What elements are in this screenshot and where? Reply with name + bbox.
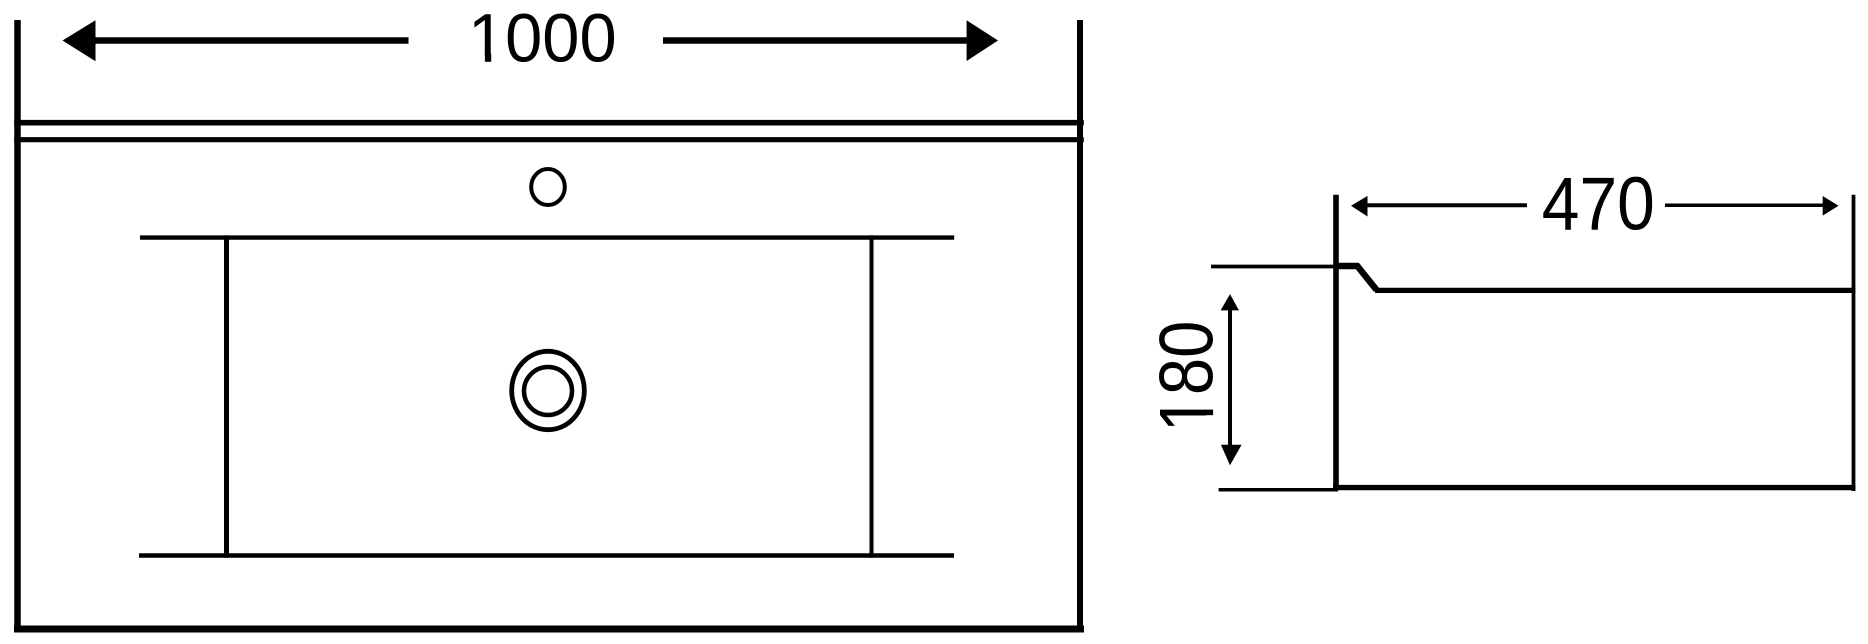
countertop bottom edge: [14, 626, 1084, 633]
faucet hole: [531, 169, 565, 205]
basin left edge: [224, 235, 229, 557]
svg-text:180: 180: [1145, 321, 1230, 433]
180 bottom extension line: [1219, 488, 1338, 492]
basin top edge: [140, 235, 954, 239]
dimension 1000 right arrow: [663, 20, 998, 61]
drain inner circle: [524, 367, 572, 415]
180 top extension line: [1211, 265, 1339, 269]
countertop back rim second line: [14, 137, 1084, 142]
basin profile top edge: [1375, 288, 1855, 293]
dimension 180 down arrow: [1221, 445, 1242, 466]
top view right extension line: [1077, 20, 1083, 632]
svg-text:1000: 1000: [468, 0, 617, 77]
basin profile ledge and slope: [1334, 266, 1377, 290]
basin right edge: [870, 235, 874, 557]
dimension label 1000: [468, 0, 617, 77]
dimension 470 right arrow: [1665, 196, 1839, 216]
dimension 470 left arrow: [1351, 196, 1527, 217]
svg-text:470: 470: [1542, 162, 1655, 246]
dimension 1000 left arrow: [63, 20, 409, 61]
side view left edge and extension line: [1333, 195, 1339, 490]
side view right extension line: [1852, 195, 1856, 491]
dimension 180 up arrow: [1221, 294, 1239, 447]
drain outer circle: [512, 351, 585, 429]
dimension label 180: [1145, 321, 1230, 433]
basin bottom edge: [139, 553, 954, 558]
basin profile bottom edge: [1333, 485, 1855, 490]
top view left extension line: [14, 20, 21, 632]
countertop top edge: [14, 120, 1084, 126]
